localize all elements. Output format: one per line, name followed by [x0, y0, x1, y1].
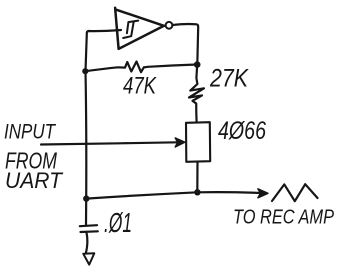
- inverter output bubble: [166, 22, 173, 29]
- waveform symbol (triangle wave): [272, 184, 318, 201]
- node: junction left (47K left end): [82, 68, 88, 74]
- ground symbol: [83, 253, 94, 264]
- hysteresis symbol inside inverter: [123, 21, 138, 38]
- resistor R1 47K with wire: [85, 62, 197, 73]
- svg-text:27K: 27K: [209, 65, 249, 93]
- resistor R2 27K (vertical zigzag): [189, 65, 204, 123]
- svg-text:UART: UART: [5, 168, 63, 193]
- node: junction right (top of 27K): [194, 61, 201, 68]
- wire: INPUT FROM UART arrow into 4066: [41, 142, 178, 144]
- wire: left vertical rail (junction to bottom junction): [84, 71, 87, 199]
- wire: capacitor to ground: [86, 233, 87, 253]
- svg-text:INPUT: INPUT: [4, 121, 57, 144]
- svg-text:TO REC AMP: TO REC AMP: [233, 207, 335, 229]
- wire: 4066 output down to bottom rail: [196, 162, 198, 192]
- node: junction bottom-left: [83, 195, 89, 201]
- svg-text:4Ø66: 4Ø66: [218, 117, 266, 145]
- node: junction below 4066: [194, 189, 200, 195]
- switch U2 4066 (box): [186, 122, 210, 162]
- wire: inverter input to left vertical rail: [86, 30, 122, 71]
- svg-text:47K: 47K: [123, 73, 157, 100]
- op-amp U1 inverter triangle: [115, 8, 164, 49]
- wire: bottom rail with arrow to REC AMP: [86, 192, 261, 198]
- capacitor C1 .01 plates: [80, 199, 98, 232]
- svg-text:.Ø1: .Ø1: [104, 207, 132, 238]
- wire: inverter output to right vertical rail: [172, 24, 198, 64]
